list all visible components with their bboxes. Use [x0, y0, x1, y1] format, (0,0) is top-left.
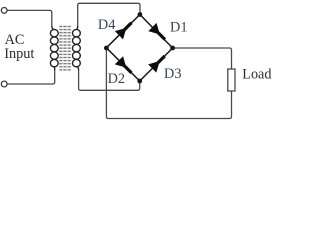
wire: bridge left vertex down to bottom rail — [106, 48, 231, 119]
transformer secondary coil — [73, 26, 81, 70]
svg-text:D4: D4 — [98, 17, 115, 33]
svg-text:D2: D2 — [108, 71, 125, 87]
diode D4 (left vertex to top vertex) — [115, 22, 133, 40]
wire: secondary top to bridge top vertex — [78, 3, 140, 26]
node bottom vertex — [137, 79, 142, 84]
transformer core (hatched) — [59, 25, 71, 71]
terminal top-left — [1, 7, 7, 13]
node left vertex — [104, 46, 109, 51]
diode D1 (top vertex to right vertex) — [148, 23, 166, 41]
wire: bridge edge top vertex to right vertex — [140, 15, 173, 49]
terminal bottom-left — [1, 81, 7, 87]
wire bottom-left: terminal to primary bottom — [7, 70, 55, 84]
svg-text:D1: D1 — [170, 19, 187, 35]
wire: secondary bottom to bridge bottom vertex — [79, 70, 140, 90]
node right vertex — [170, 46, 175, 51]
wire: bridge edge left vertex to bottom vertex — [106, 48, 139, 81]
transformer primary coil — [50, 26, 58, 70]
resistor Load — [228, 69, 235, 91]
svg-text:Load: Load — [242, 66, 271, 82]
svg-text:Input: Input — [4, 46, 34, 62]
diode D3 (bottom vertex to right vertex) — [148, 55, 166, 73]
diode D2 (left vertex to bottom vertex) — [115, 56, 133, 74]
wire: bridge edge left vertex to top vertex — [106, 15, 139, 48]
node top vertex — [138, 12, 143, 17]
wire: bridge right vertex to load top — [173, 48, 232, 69]
wire top-left: terminal to primary top — [7, 10, 52, 26]
wire: bridge edge bottom vertex to right vertex — [140, 48, 173, 81]
svg-text:D3: D3 — [164, 66, 181, 82]
